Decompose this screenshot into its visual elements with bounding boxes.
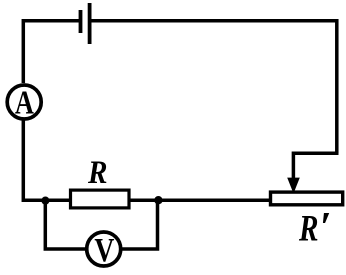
wire: voltmeter right terminal to node 2 (up) (121, 200, 158, 249)
node 2 (junction dot) (154, 196, 162, 204)
battery B1 negative plate (short) (79, 10, 83, 33)
svg-text:R: R (87, 155, 107, 191)
wire: node 1 down and right to voltmeter left terminal (45, 200, 87, 249)
rheostat wiper arrow head (287, 178, 300, 194)
wire: ammeter bottom down to lower-left corner, right to node 1 (23, 120, 46, 200)
wire: node 2 to rheostat R' left terminal (158, 199, 270, 203)
resistor R body (71, 190, 130, 208)
svg-text:R: R (298, 209, 318, 250)
rheostat R' body (271, 192, 343, 205)
wire: resistor R right terminal to node 2 (129, 199, 158, 203)
voltmeter V1 (87, 232, 121, 269)
svg-text:V: V (94, 232, 114, 269)
wire: node 1 to resistor R left terminal (45, 199, 70, 203)
battery B1 positive plate (long) (88, 3, 92, 44)
node 1 (junction dot) (41, 197, 49, 205)
ammeter A1 (7, 84, 41, 121)
wire: top-left segment from battery negative plate to top-left corner, down to ammeter top (23, 21, 79, 83)
wire: rheostat tap Z-segment (right wire to arrow shaft) (293, 153, 338, 179)
svg-text:A: A (15, 84, 34, 121)
wire: from battery positive plate to top-right corner, down right side (91, 21, 337, 154)
svg-text:′: ′ (320, 205, 332, 251)
